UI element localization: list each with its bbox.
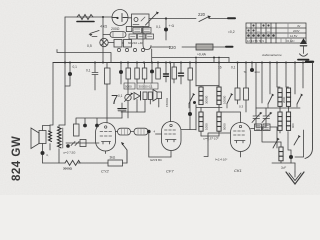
resistor R4 <box>114 40 122 48</box>
svg-text:12 34 56 78 9: 12 34 56 78 9 <box>247 39 265 43</box>
wire IFT to V3 grid <box>221 112 241 123</box>
diode D1 <box>134 93 140 100</box>
wire mains second <box>151 46 196 48</box>
wire <box>272 162 295 164</box>
wire to bus stub <box>151 49 153 63</box>
svg-text:220: 220 <box>169 45 177 50</box>
wire grid feed V2 <box>156 133 162 135</box>
svg-text:10000: 10000 <box>223 95 227 104</box>
svg-text:300 50 0,1: 300 50 0,1 <box>139 85 154 89</box>
capacitor C2 <box>69 63 71 73</box>
coil L3 <box>199 112 203 131</box>
wire filament chain <box>57 50 111 63</box>
tube V2 envelope <box>162 122 182 151</box>
trimmer arrows <box>71 142 79 146</box>
tube V2 electrodes <box>165 130 176 134</box>
wire <box>149 18 196 20</box>
trimmer arrow T1 <box>90 31 99 34</box>
speaker LS1 <box>31 128 39 149</box>
wire hook from switch box <box>143 27 151 50</box>
fuse F1 <box>196 44 213 50</box>
wire speaker tops <box>50 63 65 132</box>
padder capacitor C14 <box>118 108 126 110</box>
wire heater line <box>152 57 214 59</box>
svg-text:16: 16 <box>218 66 222 70</box>
svg-text:Ts: Ts <box>244 70 248 74</box>
svg-text:0,1: 0,1 <box>73 65 78 69</box>
voltage table <box>246 23 306 43</box>
svg-text:30000: 30000 <box>205 95 209 104</box>
wire bottom rail <box>43 162 128 164</box>
trimmer capacitor CT1 <box>253 108 260 127</box>
wire V3 left <box>204 133 231 157</box>
capacitor C1 0,1 <box>165 19 167 41</box>
svg-text:12,5V: 12,5V <box>290 34 297 38</box>
wire vertical dial branch <box>102 17 104 63</box>
transformer TR1 secondary <box>58 127 62 148</box>
capacitor C13 <box>289 155 293 159</box>
svg-text:≈0,4A: ≈0,4A <box>197 53 207 57</box>
svg-text:3kΩ: 3kΩ <box>110 156 116 160</box>
resistor R11 <box>156 68 161 79</box>
svg-text:f=2,4·10²: f=2,4·10² <box>215 158 228 162</box>
wire right column to ground <box>295 130 304 157</box>
resistor R10 <box>142 68 147 79</box>
node J1 <box>165 17 167 19</box>
svg-text:0,1: 0,1 <box>118 94 123 98</box>
wire <box>256 127 281 142</box>
svg-text:—: — <box>257 29 260 33</box>
wire <box>196 105 222 130</box>
node dots on bus <box>64 62 304 64</box>
component box B3 <box>263 124 270 131</box>
tube V3 electrodes <box>234 131 245 135</box>
svg-text:0,3: 0,3 <box>239 105 244 109</box>
resistor R8 <box>126 68 131 79</box>
svg-text:4 kΩ: 4 kΩ <box>100 25 108 29</box>
wire main HT bus <box>53 62 311 64</box>
capacitor C5 blob <box>95 124 99 128</box>
svg-text:CF7: CF7 <box>166 169 174 174</box>
svg-text:·: · <box>272 24 273 28</box>
coil L2 <box>217 87 221 105</box>
lamp LP1 pilot <box>112 10 128 26</box>
antenna symbol <box>300 38 307 44</box>
coil L4 <box>217 112 221 131</box>
node J2 <box>102 16 104 18</box>
wire speaker bottoms <box>50 144 59 164</box>
svg-text:220: 220 <box>198 12 206 17</box>
capacitor C9 blob <box>41 151 45 155</box>
wire <box>256 107 300 109</box>
tube V1 envelope <box>96 123 116 152</box>
svg-text:0,1: 0,1 <box>86 69 91 73</box>
wire grid feed left of V1 <box>66 142 99 144</box>
capacitor C4 blob <box>83 124 87 128</box>
wire mains prong top <box>209 18 228 20</box>
switch blade S2 mains <box>199 17 209 22</box>
capacitor C11 <box>180 63 182 85</box>
resistor R12 <box>143 92 147 100</box>
svg-text:60 210 +40: 60 210 +40 <box>128 41 143 45</box>
svg-text:≈0,1A≈: ≈0,1A≈ <box>286 39 295 43</box>
capacitor C10 <box>165 63 167 83</box>
wire V3 anode right <box>251 128 255 130</box>
svg-text:4,: 4, <box>46 153 49 157</box>
svg-text:220V: 220V <box>293 29 300 33</box>
svg-text:≈0,2: ≈0,2 <box>228 30 235 34</box>
antenna jack <box>300 54 308 56</box>
resistor R20 <box>235 88 240 100</box>
svg-text:4V: 4V <box>297 24 301 28</box>
wire tube2 cathode <box>147 130 151 134</box>
svg-text:ω=2·7,5Ω: ω=2·7,5Ω <box>63 151 75 155</box>
svg-text:1500Ω: 1500Ω <box>165 97 169 107</box>
svg-text:200Ω: 200Ω <box>111 27 120 31</box>
lamp LP2 scale lamp <box>100 38 108 46</box>
resistor R1 mains dropper <box>77 15 93 20</box>
transformer TR1 primary <box>49 131 52 142</box>
resistor R6 <box>105 68 111 84</box>
capacitor C6 <box>120 63 122 85</box>
coil L8 <box>279 147 283 161</box>
switch blade S5 <box>227 95 232 104</box>
capsule component K2 <box>134 128 148 135</box>
svg-text:GZVII BC: GZVII BC <box>150 158 162 162</box>
wire verticals <box>256 63 303 109</box>
coil L7 <box>286 112 290 130</box>
svg-text:·: · <box>247 24 248 28</box>
wire mains top <box>65 16 132 19</box>
switch blade S9 <box>294 137 299 146</box>
capacitor C15 blob <box>188 112 192 116</box>
resistor R21 <box>244 88 249 100</box>
resistor R9 <box>135 68 140 79</box>
component box on bus <box>214 58 229 63</box>
antenna terminal <box>306 61 313 63</box>
selector contacts <box>117 48 144 51</box>
tube V3 envelope <box>231 123 251 152</box>
coil L7b <box>278 112 282 130</box>
switch box S1 <box>132 14 150 27</box>
svg-text:ω=4,57·10⁵: ω=4,57·10⁵ <box>203 137 219 141</box>
switch blade S1a <box>146 13 158 26</box>
resistor R17 with vertical feed <box>170 63 172 122</box>
wire <box>196 58 219 87</box>
svg-text:0,1: 0,1 <box>231 66 236 70</box>
resistor R19 <box>188 68 193 80</box>
coil L1 <box>199 87 203 105</box>
coil L5 <box>278 88 282 106</box>
trimmer capacitor CT2 <box>263 108 270 127</box>
switch blade S3 <box>122 144 127 164</box>
resistor R13 <box>148 92 152 100</box>
capacitor C8 blob <box>66 144 70 148</box>
tube V1 electrodes <box>100 132 112 137</box>
svg-text:+·Ω: +·Ω <box>169 24 175 28</box>
svg-text:1000: 1000 <box>205 123 209 130</box>
svg-text:—: — <box>267 29 270 33</box>
switch blade S8 <box>273 139 278 148</box>
wire left vertical from mains <box>64 17 66 125</box>
svg-text:5000: 5000 <box>125 85 132 89</box>
right edge drop wire <box>305 63 313 159</box>
resistor R5 <box>124 40 132 48</box>
svg-text:0,1: 0,1 <box>156 25 161 29</box>
component box B2 <box>255 124 262 131</box>
svg-text:2cm: 2cm <box>255 70 261 74</box>
resistor R14 <box>80 140 86 147</box>
coil L6 <box>286 88 290 106</box>
resistor R2 oval body <box>110 32 126 38</box>
resistor R15 zigzag <box>65 160 80 165</box>
capacitor C7 <box>151 63 153 84</box>
capacitor C12 <box>251 63 253 69</box>
svg-text:Außenantenne: Außenantenne <box>261 53 282 57</box>
switch blade S6 <box>268 95 273 104</box>
svg-text:CK1: CK1 <box>234 168 242 173</box>
resistor R3 small box <box>126 27 132 32</box>
capsule component K1 <box>118 128 131 135</box>
svg-text:600: 600 <box>291 123 295 128</box>
svg-text:2000: 2000 <box>282 96 286 103</box>
svg-text:CY2: CY2 <box>101 169 110 174</box>
label strip boxes <box>124 83 135 89</box>
component boxes under switch <box>129 28 154 40</box>
wire V2 anode to IFT <box>181 129 196 131</box>
switch blade S7 <box>297 95 302 104</box>
wire mains prong bottom <box>213 46 226 48</box>
ground symbol <box>294 163 296 172</box>
svg-text:5000: 5000 <box>223 123 227 130</box>
resistor R18 <box>172 67 177 79</box>
svg-text:824 GW: 824 GW <box>11 136 23 181</box>
svg-text:3000Ω: 3000Ω <box>63 167 73 171</box>
wire tube1 top feed <box>76 118 122 124</box>
capacitor C3 <box>92 63 98 91</box>
switch blade S4 <box>193 101 196 104</box>
resistor R16 box <box>108 160 123 166</box>
svg-text:··: ·· <box>257 24 259 28</box>
svg-text:0,5: 0,5 <box>87 44 92 48</box>
jack J headphone <box>157 92 162 99</box>
svg-text:2µF: 2µF <box>281 166 286 170</box>
resistor R7 <box>74 124 80 136</box>
